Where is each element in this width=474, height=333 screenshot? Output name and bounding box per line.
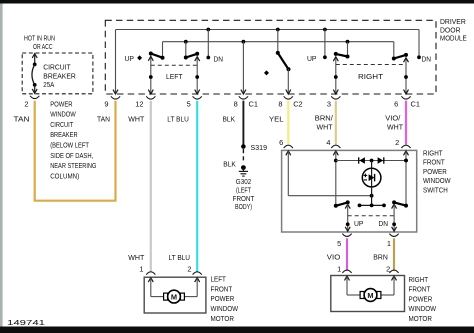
svg-text:BLK: BLK: [223, 115, 236, 124]
svg-text:WHT: WHT: [128, 115, 145, 124]
svg-text:BLK: BLK: [223, 159, 236, 168]
svg-text:TAN: TAN: [14, 114, 30, 123]
svg-text:CIRCUIT: CIRCUIT: [43, 62, 71, 71]
svg-text:LEFT: LEFT: [211, 275, 227, 284]
svg-text:BODY): BODY): [235, 202, 252, 211]
svg-text:C1: C1: [411, 99, 420, 108]
svg-text:1: 1: [139, 265, 143, 274]
svg-text:2: 2: [395, 138, 399, 147]
svg-text:12: 12: [135, 99, 143, 108]
svg-text:VIO/: VIO/: [385, 114, 400, 123]
svg-text:CIRCUIT: CIRCUIT: [50, 120, 73, 129]
svg-text:YEL: YEL: [269, 115, 284, 124]
svg-text:WHT: WHT: [128, 253, 145, 262]
svg-text:SIDE OF DASH,: SIDE OF DASH,: [50, 151, 93, 160]
svg-text:POWER: POWER: [211, 294, 235, 303]
svg-text:4: 4: [326, 138, 330, 147]
svg-text:OR ACC: OR ACC: [33, 42, 53, 51]
svg-text:WINDOW: WINDOW: [211, 304, 239, 313]
svg-text:UP: UP: [125, 54, 135, 63]
svg-text:6: 6: [394, 99, 398, 108]
svg-text:9: 9: [104, 99, 108, 108]
svg-text:3: 3: [327, 99, 331, 108]
svg-text:8: 8: [234, 99, 238, 108]
svg-text:MOTOR: MOTOR: [409, 314, 432, 323]
svg-text:LEFT: LEFT: [166, 72, 183, 81]
svg-text:2: 2: [187, 265, 191, 274]
svg-text:POWER: POWER: [50, 99, 72, 108]
svg-text:LT BLU: LT BLU: [167, 115, 189, 124]
svg-text:UP: UP: [307, 54, 317, 63]
svg-text:WHT: WHT: [317, 123, 334, 132]
svg-text:FRONT: FRONT: [423, 158, 445, 167]
svg-text:BREAKER: BREAKER: [43, 71, 76, 80]
svg-text:MODULE: MODULE: [440, 34, 467, 43]
svg-text:COLUMN): COLUMN): [50, 171, 79, 180]
svg-text:DN: DN: [214, 55, 224, 64]
svg-text:POWER: POWER: [409, 294, 433, 303]
svg-text:5: 5: [187, 99, 191, 108]
svg-text:RIGHT: RIGHT: [423, 148, 443, 157]
svg-text:6: 6: [279, 138, 283, 147]
svg-text:SWITCH: SWITCH: [423, 186, 448, 195]
svg-text:BREAKER: BREAKER: [50, 130, 77, 139]
svg-text:M: M: [367, 291, 373, 300]
svg-text:RIGHT: RIGHT: [358, 72, 384, 81]
svg-text:TAN: TAN: [97, 115, 110, 124]
svg-text:WINDOW: WINDOW: [423, 176, 451, 185]
svg-text:DN: DN: [422, 55, 432, 64]
svg-text:UP: UP: [354, 219, 364, 228]
svg-text:FRONT: FRONT: [211, 284, 233, 293]
svg-text:2: 2: [24, 99, 28, 108]
svg-text:WINDOW: WINDOW: [409, 304, 437, 313]
svg-text:M: M: [171, 292, 177, 301]
svg-text:FRONT: FRONT: [409, 285, 431, 294]
svg-text:POWER: POWER: [423, 167, 447, 176]
svg-text:MOTOR: MOTOR: [211, 314, 234, 323]
svg-text:NEAR STEERING: NEAR STEERING: [50, 161, 97, 170]
svg-text:25A: 25A: [43, 80, 54, 89]
svg-text:C2: C2: [293, 99, 302, 108]
svg-text:1: 1: [337, 264, 341, 273]
svg-text:WHT: WHT: [387, 123, 404, 132]
svg-text:(BELOW LEFT: (BELOW LEFT: [50, 141, 89, 150]
svg-text:VIO: VIO: [327, 253, 341, 262]
svg-text:BRN/: BRN/: [315, 114, 333, 123]
svg-text:LT BLU: LT BLU: [169, 253, 191, 262]
svg-text:DN: DN: [379, 219, 389, 228]
svg-text:WINDOW: WINDOW: [50, 110, 76, 119]
svg-text:8: 8: [278, 99, 282, 108]
svg-text:RIGHT: RIGHT: [409, 275, 429, 284]
svg-text:1: 1: [387, 239, 391, 248]
svg-text:149741: 149741: [7, 320, 45, 327]
svg-text:BRN: BRN: [373, 253, 388, 262]
svg-text:C1: C1: [249, 99, 258, 108]
svg-text:5: 5: [337, 239, 341, 248]
svg-text:S319: S319: [251, 143, 268, 152]
